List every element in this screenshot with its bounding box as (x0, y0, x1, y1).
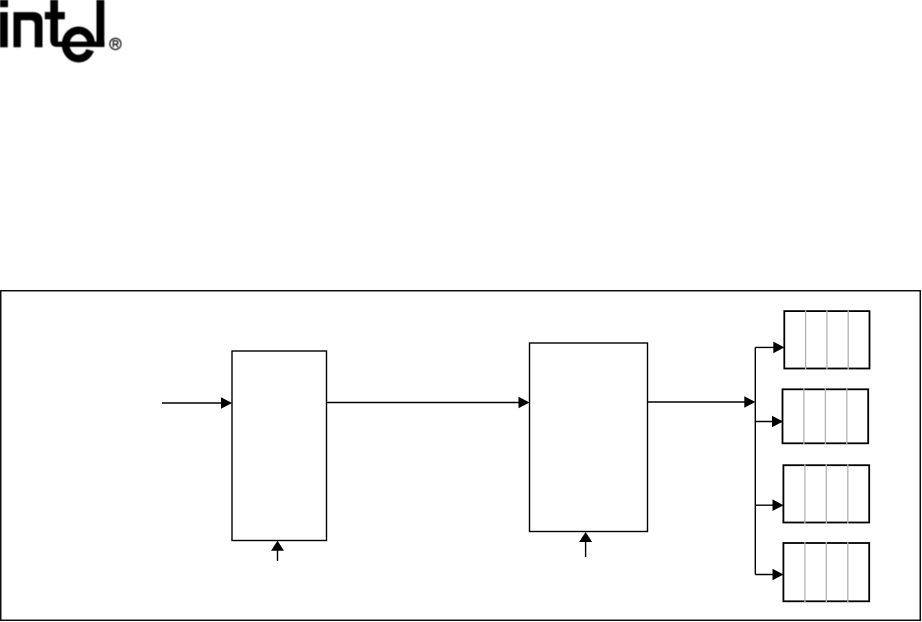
logo i stem (0, 12, 8, 47)
register box 2 (783, 388, 869, 444)
arrow block 2 to distribution line (648, 396, 756, 408)
logo l stem (97, 0, 105, 47)
branch arrow to register box 4 (755, 569, 783, 581)
logo e bowl (66, 30, 92, 58)
branch arrow to register box 1 (755, 342, 784, 354)
up arrow into block 2 bottom (579, 532, 592, 557)
block 1 (232, 351, 327, 541)
branch arrow to register box 3 (755, 499, 783, 511)
register box 3 (783, 464, 869, 523)
register box 4 (783, 542, 869, 602)
branch arrow to register box 2 (755, 416, 783, 428)
arrow block 1 to block 2 (327, 397, 530, 409)
register box 1 (784, 310, 869, 369)
logo n (14, 12, 43, 47)
vertical distribution line (754, 347, 756, 574)
registered trademark (110, 38, 121, 49)
intel logo (0, 0, 121, 59)
input arrow into block 1 (162, 397, 232, 409)
logo t crossbar (45, 12, 65, 19)
logo t stem and e crossbar (50, 0, 104, 47)
figure frame (1, 291, 921, 621)
up arrow into block 1 bottom (271, 541, 284, 561)
block 2 (530, 343, 648, 532)
logo i dot (0, 0, 8, 7)
